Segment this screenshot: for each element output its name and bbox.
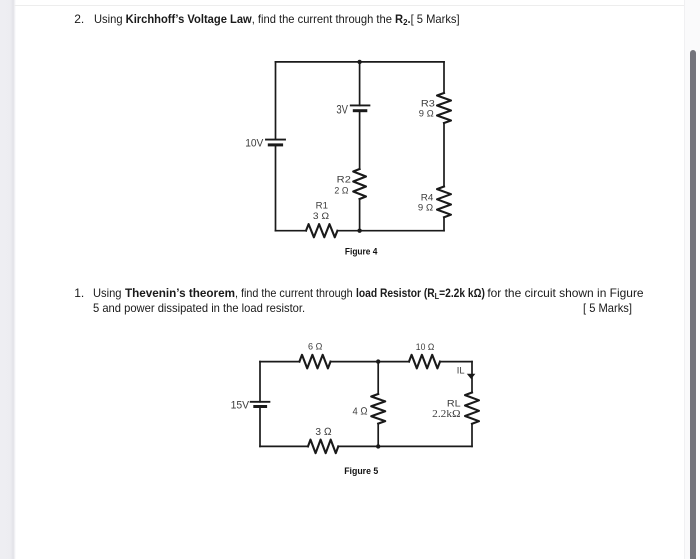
svg-text:R1: R1	[316, 200, 328, 210]
svg-text:R2: R2	[337, 175, 351, 185]
svg-text:10 Ω: 10 Ω	[416, 342, 435, 352]
svg-text:4 Ω: 4 Ω	[353, 405, 368, 417]
svg-text:15V: 15V	[231, 400, 250, 412]
svg-text:Figure 5: Figure 5	[344, 466, 379, 477]
svg-text:3 Ω: 3 Ω	[315, 426, 331, 438]
svg-text:6 Ω: 6 Ω	[308, 341, 323, 351]
svg-text:R4: R4	[421, 193, 434, 203]
svg-text:2.2kΩ: 2.2kΩ	[432, 409, 461, 420]
svg-text:3 Ω: 3 Ω	[313, 211, 329, 221]
svg-text:Figure 4: Figure 4	[345, 247, 378, 258]
svg-text:R3: R3	[421, 98, 435, 108]
svg-text:3V: 3V	[336, 105, 348, 117]
svg-text:RL: RL	[447, 399, 461, 410]
svg-text:2 Ω: 2 Ω	[334, 185, 348, 195]
svg-text:10V: 10V	[245, 138, 264, 150]
svg-text:9 Ω: 9 Ω	[418, 203, 433, 213]
svg-text:IL: IL	[457, 366, 465, 376]
svg-text:9 Ω: 9 Ω	[419, 109, 434, 119]
